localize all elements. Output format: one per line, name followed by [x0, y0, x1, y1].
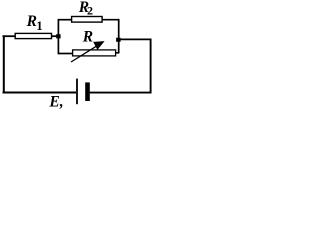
battery E thick plate (short) — [85, 82, 90, 101]
wire: right junction to right rail — [118, 38, 151, 40]
wire: bottom left (left rail to battery) — [3, 92, 77, 94]
wire: rheostat right lead — [115, 52, 119, 54]
rheostat wiper arrowhead — [93, 41, 104, 50]
wire: R2 right lead — [102, 19, 119, 21]
wire: R1 left lead — [3, 35, 16, 37]
wire: R2 left lead — [58, 19, 72, 21]
battery E thin plate (long) — [76, 79, 78, 105]
svg-text:R: R — [82, 28, 93, 45]
wire: right branch vertical — [118, 19, 120, 53]
resistor R1 — [15, 33, 51, 38]
rheostat R box — [73, 50, 116, 56]
wire: bottom right (battery to right rail) — [90, 92, 152, 94]
rheostat wiper arrow shaft — [71, 45, 98, 62]
svg-text:E,: E, — [48, 93, 63, 110]
wire: R1 to left junction — [52, 35, 59, 37]
wire: left rail (vertical) — [3, 35, 5, 93]
svg-text:R: R — [26, 13, 37, 30]
wire: left branch vertical — [57, 20, 59, 54]
node: right junction dot — [116, 38, 121, 42]
svg-text:2: 2 — [87, 4, 93, 18]
svg-text:1: 1 — [36, 19, 42, 33]
wire: rheostat left lead — [58, 53, 73, 55]
wire: right rail (vertical) — [150, 39, 152, 94]
node: left junction dot — [56, 34, 60, 38]
resistor R2 — [72, 17, 103, 23]
